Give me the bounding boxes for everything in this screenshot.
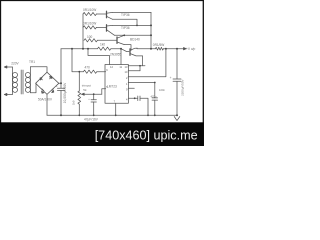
wire 470 to IC pin6 [97, 71, 106, 73]
wire pin11 drop [120, 49, 122, 65]
node bus A foot [82, 48, 84, 50]
IC pin7 stub [115, 103, 117, 115]
svg-text:LM723: LM723 [107, 85, 117, 89]
wire secondary top lead [30, 67, 47, 72]
bus right collector bus [150, 12, 152, 48]
wire pot bottom to rail [78, 104, 80, 115]
node bus-collector junction 1 [150, 24, 152, 26]
node sense tap [165, 48, 167, 50]
frame border [0, 0, 204, 146]
wire 100n drop [154, 83, 156, 98]
node pin13 row junction [139, 65, 141, 67]
wire bridge plus to main rail [59, 82, 61, 84]
capacitor C3 100n plates [152, 98, 158, 100]
svg-text:100n: 100n [159, 88, 165, 92]
svg-text:0R1/5W: 0R1/5W [153, 43, 165, 47]
node collector bus foot [150, 48, 152, 50]
wire bridge minus drop [46, 94, 48, 115]
transistor Q1 TIP36 [106, 11, 108, 17]
svg-text:BD140: BD140 [130, 37, 140, 41]
watermark bar [0, 122, 204, 146]
wire Q2 collector rail [115, 34, 152, 36]
transistor Q3 BD140 [116, 37, 118, 43]
resistor R2 0R1/10W (row 2) [83, 26, 96, 29]
transistor Q4 2N3055 [129, 49, 131, 55]
wire C1 to ground rail [60, 91, 62, 116]
node C4 ground [147, 114, 149, 116]
transistor Q2 TIP36 [106, 25, 108, 31]
bridge diode 2 [49, 76, 52, 79]
node bridge plus [60, 82, 62, 84]
wire +V vertical [60, 49, 62, 88]
wire row4 +V line [61, 48, 98, 50]
IC right pin row 2 [128, 70, 140, 72]
svg-text:TR1: TR1 [29, 60, 35, 64]
svg-text:470p: 470p [151, 94, 157, 98]
capacitor C5 2200uF plates [173, 79, 181, 81]
node C3 ground [154, 114, 156, 116]
bridge diode 3 [52, 88, 54, 92]
svg-text:TIP36: TIP36 [121, 26, 130, 30]
wire Q4 emitter drop to pin10 row [142, 56, 144, 66]
svg-text:[740x460] upic.me: [740x460] upic.me [95, 128, 198, 142]
node pin1 row corner [154, 82, 156, 84]
svg-text:220V: 220V [11, 61, 19, 65]
node bus B tap [87, 48, 89, 50]
node Q3 emitter join [123, 34, 125, 36]
svg-text:1k0: 1k0 [72, 100, 76, 105]
wire cap to ground rail [176, 81, 178, 115]
resistor R6 470 [83, 70, 96, 73]
wire primary bottom lead [7, 94, 13, 96]
IC pin numbers [106, 65, 128, 103]
bus B pin12 feed [88, 49, 110, 65]
wire pot top feed [78, 72, 80, 91]
wire C4 to rail link [140, 98, 148, 115]
transformer TR1 primary coil [11, 67, 13, 95]
capacitor C1 10000uF plates [57, 88, 64, 90]
svg-text:5k: 5k [83, 88, 87, 92]
IC right pin row 1 [128, 65, 145, 67]
svg-text:470: 470 [85, 66, 91, 70]
wire sense line to pin [129, 49, 166, 77]
node pin4 row junction [134, 97, 136, 99]
svg-text:TIP36: TIP36 [121, 13, 130, 17]
svg-text:1k0: 1k0 [100, 42, 105, 46]
bridge diode 1 [40, 78, 42, 81]
wire Q3 collector drop [124, 45, 131, 51]
svg-text:47µF/16V: 47µF/16V [84, 118, 99, 122]
wire Q4 collector to node [137, 47, 156, 50]
pot wiper arrow [82, 93, 102, 95]
node pot top tap [78, 71, 80, 73]
resistor R5 0R1/5W [156, 47, 164, 50]
capacitor C2 47uF stub [93, 94, 95, 100]
svg-text:0R1/10W: 0R1/10W [83, 8, 96, 12]
wire C3 to rail [154, 100, 156, 115]
wire row3 base to Q3 [97, 39, 117, 41]
bus A left resistor bus [82, 14, 84, 49]
resistor R1 0R1/10W (row 1) [83, 12, 96, 15]
node pin7 ground [115, 114, 117, 116]
svg-text:10,000µF/50V: 10,000µF/50V [63, 82, 67, 104]
node pin11 tap [120, 48, 122, 50]
capacitor C4 470p plates [138, 96, 140, 101]
ground [174, 117, 180, 121]
node +V to R6 tap [71, 48, 73, 50]
IC right pin row 6 [128, 97, 137, 99]
wire Q1 emitter rail [113, 11, 152, 13]
svg-text:2N3055: 2N3055 [110, 53, 121, 57]
node bus-collector junction 2 [150, 34, 152, 36]
node output ground [176, 114, 178, 116]
IC right pin row 4 [128, 82, 155, 84]
wire row1 base to Q1 [96, 13, 106, 15]
transformer core [21, 70, 23, 94]
svg-text:+: + [170, 76, 172, 80]
svg-text:trimpot: trimpot [82, 84, 91, 88]
wire row1-row2 link [139, 66, 141, 71]
wire Q1 collector rail [113, 19, 138, 25]
capacitor C2 47uF plates [91, 100, 96, 102]
wire 470 feed drop [72, 49, 83, 72]
svg-text:+: + [56, 84, 58, 88]
IC right pin row 5 [128, 87, 134, 89]
svg-text:0R1/10W: 0R1/10W [83, 22, 96, 26]
resistor R3 100 (row 3) [84, 39, 97, 42]
bridge diode 4 [42, 89, 45, 94]
output arrow [184, 48, 187, 50]
node C2 ground [93, 114, 95, 116]
node pot ground [78, 114, 80, 116]
transformer TR1 secondary coil [29, 67, 31, 93]
bridge rectifier BR1 [36, 72, 59, 94]
wire row2 base to Q2 [96, 26, 106, 28]
svg-text:+V o/p: +V o/p [186, 47, 196, 51]
wire primary top lead [7, 66, 13, 68]
wire secondary bottom lead [30, 83, 36, 92]
node wiper-C2 tap [93, 93, 95, 95]
svg-text:50A/100V: 50A/100V [38, 97, 53, 101]
wire row4 to Q4 base [111, 49, 129, 52]
wire C2 to rail [93, 102, 95, 115]
node Q1 collector join [136, 25, 138, 27]
arrow primary top [4, 66, 7, 68]
node C1 ground [60, 114, 62, 116]
IC U1 LM723 body [105, 65, 128, 104]
wire wiper to pin5 [102, 89, 106, 95]
ground rail [47, 114, 177, 116]
node output cap tap [176, 48, 178, 50]
arrow primary bottom [4, 93, 7, 95]
svg-text:2200µF/50V: 2200µF/50V [180, 79, 184, 95]
wire output [163, 48, 183, 50]
resistor R4 1k0 (row 4) [98, 47, 111, 50]
potentiometer VR1 5k [78, 91, 81, 104]
IC right pin row 3 (sense) [127, 76, 130, 78]
wire Q2 emitter rail [113, 24, 152, 26]
svg-text:100: 100 [87, 35, 93, 39]
wire output cap drop [176, 49, 178, 79]
